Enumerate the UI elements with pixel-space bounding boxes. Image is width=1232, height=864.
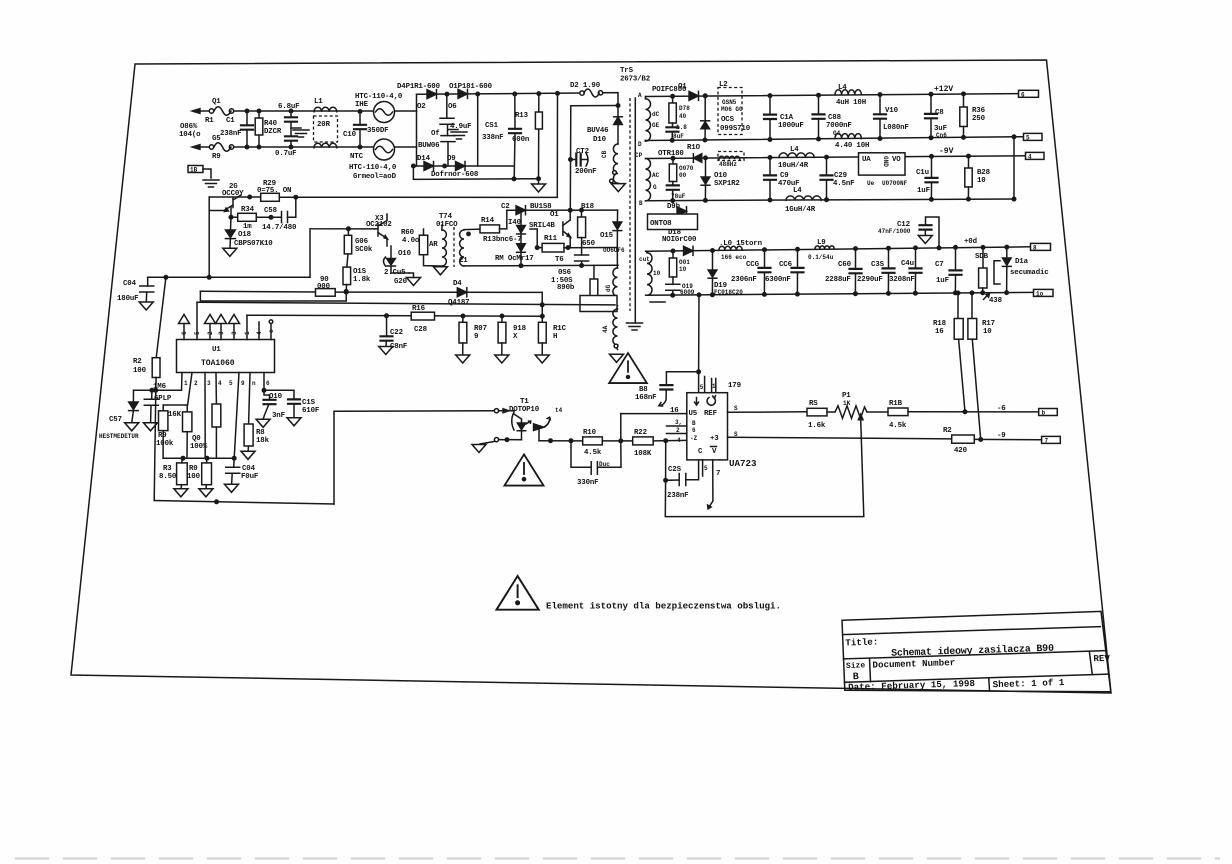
svg-text:CB: CB: [601, 150, 608, 158]
svg-text:D4: D4: [453, 280, 462, 288]
opto phototransistor: [534, 424, 545, 431]
svg-text:R11: R11: [544, 235, 558, 243]
bridge mid column with cap 4.9uF: [447, 94, 448, 166]
svg-text:C8: C8: [935, 109, 944, 117]
wire REF output: [728, 411, 808, 414]
svg-text:GE: GE: [652, 122, 660, 129]
wire PG base: [230, 208, 232, 218]
svg-text:AC: AC: [652, 172, 660, 179]
resistor AR: [419, 235, 427, 255]
svg-text:R0: R0: [189, 465, 198, 473]
ground T74: [440, 265, 442, 268]
transformer core dashed: [629, 98, 631, 311]
title block row line 1: [843, 627, 1101, 635]
NTC thermistor lower: [374, 139, 395, 160]
svg-text:O15: O15: [600, 232, 614, 240]
node 438: [984, 295, 988, 300]
svg-text:OCS: OCS: [721, 116, 735, 124]
svg-text:R1O: R1O: [687, 144, 701, 152]
svg-text:1o: 1o: [1036, 290, 1044, 297]
warning triangle opto: [504, 454, 543, 485]
resistor column C: [215, 373, 217, 404]
svg-text:REV: REV: [1093, 653, 1110, 665]
capacitor C1S 610F: [264, 390, 294, 399]
svg-text:-6: -6: [997, 405, 1006, 413]
wire U1 pin6 down: [234, 373, 239, 459]
svg-text:104(o: 104(o: [179, 131, 201, 139]
svg-text:6: 6: [1021, 91, 1025, 98]
svg-text:2: 2: [676, 427, 680, 434]
wire bottom loop: [665, 420, 864, 517]
svg-text:238nF: 238nF: [220, 130, 241, 138]
svg-text:21: 21: [459, 257, 468, 265]
svg-text:-9V: -9V: [939, 147, 954, 156]
svg-text:168nF: 168nF: [635, 394, 656, 402]
svg-text:1GuH/4R: 1GuH/4R: [785, 206, 816, 214]
svg-text:GSN5: GSN5: [722, 99, 737, 106]
svg-text:L080nF: L080nF: [883, 124, 909, 132]
svg-text:3nF: 3nF: [272, 412, 285, 420]
svg-text:D10: D10: [593, 136, 607, 144]
diode D4 line: [200, 290, 315, 293]
U1 top pin arrows: [179, 315, 190, 324]
snubber top rail: [571, 105, 618, 107]
svg-text:n: n: [252, 380, 256, 387]
svg-text:8uF: 8uF: [673, 133, 684, 140]
svg-text:O1: O1: [550, 211, 559, 219]
ground stub near 6.8uF: [291, 127, 301, 129]
svg-text:4: 4: [1028, 153, 1032, 160]
resistor 16K column A: [163, 373, 192, 412]
svg-text:C04: C04: [242, 465, 256, 473]
svg-text:7: 7: [716, 470, 720, 478]
svg-text:4.5nF: 4.5nF: [833, 180, 854, 188]
svg-text:L1: L1: [314, 98, 323, 106]
svg-text:10: 10: [653, 270, 661, 277]
svg-text:CC6: CC6: [779, 261, 793, 269]
svg-text:4.5k: 4.5k: [889, 422, 907, 430]
resistor B28 10: [968, 156, 970, 168]
svg-text:HESTMEDETUR: HESTMEDETUR: [99, 433, 139, 440]
svg-text:Of: Of: [431, 130, 440, 138]
svg-text:3: 3: [207, 380, 211, 387]
svg-text:O10: O10: [398, 250, 412, 258]
svg-text:5: 5: [704, 465, 708, 472]
capacitor C22: [386, 316, 388, 337]
svg-text:U0700NF: U0700NF: [882, 180, 908, 187]
svg-text:1uF: 1uF: [936, 277, 949, 285]
capacitor C7 1uF: [955, 247, 957, 270]
svg-text:R36: R36: [972, 107, 986, 115]
capacitor snubber: [581, 238, 583, 255]
transformer primary lower winding: [616, 248, 618, 269]
IC U1 TDA1060: [177, 340, 275, 373]
svg-text:REF: REF: [704, 410, 717, 418]
wire top corner to switch column: [603, 93, 618, 117]
svg-text:D14: D14: [417, 155, 431, 163]
capacitor C8: [930, 94, 932, 114]
wire X3 base rail: [310, 229, 375, 278]
output connector 7: [1042, 436, 1061, 443]
svg-text:2: 2: [207, 331, 214, 335]
flyback diode BUV46: [614, 117, 623, 125]
svg-text:3,: 3,: [675, 419, 682, 426]
svg-text:A: A: [638, 92, 642, 99]
svg-text:CBPS07K10: CBPS07K10: [234, 240, 273, 248]
wire feedback loop to opto: [334, 411, 496, 504]
svg-text:2290uF: 2290uF: [857, 276, 883, 284]
svg-text:t4: t4: [555, 407, 563, 414]
svg-text:5: 5: [1026, 134, 1030, 141]
svg-text:dC: dC: [652, 111, 660, 118]
svg-text:1B: 1B: [190, 167, 198, 174]
svg-text:3: 3: [218, 331, 225, 335]
svg-text:R10: R10: [583, 429, 597, 437]
capacitor C2S 238nF: [665, 441, 667, 481]
svg-text:01FCO: 01FCO: [436, 221, 458, 229]
svg-text:dG: dG: [605, 284, 612, 292]
svg-text:4A: 4A: [602, 325, 609, 333]
svg-text:C10: C10: [343, 131, 357, 139]
resistor G06 500k: [347, 229, 349, 236]
svg-text:C57: C57: [109, 416, 122, 424]
svg-text:4: 4: [218, 380, 222, 387]
svg-text:40: 40: [679, 113, 687, 120]
svg-text:488Hz: 488Hz: [719, 161, 737, 168]
bridge rectifier left rail: [416, 94, 418, 166]
svg-text:T1: T1: [520, 398, 529, 406]
svg-text:R2: R2: [943, 427, 952, 435]
svg-text:10: 10: [679, 266, 687, 273]
capacitor C60 2288uF: [855, 249, 857, 269]
svg-text:C9: C9: [780, 172, 789, 180]
resistor O070 snubber S2: [671, 157, 675, 161]
svg-text:R07: R07: [474, 325, 487, 333]
svg-text:6: 6: [692, 427, 696, 434]
scan edge artifact: [15, 857, 1220, 859]
resistor R40: [258, 111, 260, 147]
svg-text:cut: cut: [639, 256, 650, 263]
svg-text:V: V: [712, 448, 717, 456]
rail mid-left: [148, 276, 310, 278]
wire U1 clock line: [197, 302, 615, 305]
output connector 5: [1024, 133, 1043, 140]
ground 1B: [203, 180, 219, 187]
secondary winding S1: [646, 99, 651, 141]
regulator box: [859, 153, 906, 175]
title block date/sheet divider: [988, 678, 991, 691]
svg-text:R14: R14: [481, 217, 495, 225]
svg-text:R1C: R1C: [553, 325, 567, 333]
svg-text:C1: C1: [226, 117, 235, 125]
output connector 8: [1031, 243, 1051, 250]
mains input terminal lower arrow: [192, 145, 200, 150]
junction row: [163, 457, 234, 459]
svg-text:C28: C28: [414, 326, 428, 334]
secondary winding S2: [646, 159, 651, 201]
svg-text:BU1S8: BU1S8: [530, 203, 552, 211]
svg-text:6: 6: [181, 331, 188, 335]
svg-text:6: 6: [266, 380, 270, 387]
title block REV cell divider: [1089, 651, 1092, 674]
resistor R1C: [541, 316, 543, 322]
svg-text:-9: -9: [997, 432, 1006, 440]
ground mid bridge: [448, 129, 458, 131]
svg-text:ONTO8: ONTO8: [650, 220, 672, 228]
svg-text:Size: Size: [846, 661, 866, 671]
svg-text:4.0o: 4.0o: [402, 237, 420, 245]
wire U1 pin3 down: [204, 373, 206, 459]
svg-text:100: 100: [187, 473, 201, 481]
svg-text:180uF: 180uF: [117, 295, 138, 303]
title block size cell divider: [870, 658, 871, 681]
svg-text:8: 8: [1033, 244, 1037, 251]
title block row line 3: [845, 674, 1108, 682]
warning triangle transformer: [609, 353, 647, 383]
svg-text:4.40 10H: 4.40 10H: [835, 142, 869, 150]
svg-text:O070: O070: [679, 165, 694, 172]
+12V bottom rail: [646, 137, 1024, 141]
svg-text:HTC-110-4,0: HTC-110-4,0: [349, 164, 397, 172]
bridge top rail: [417, 93, 582, 94]
svg-text:o: o: [268, 329, 275, 333]
svg-text:8.50: 8.50: [159, 473, 177, 481]
diode D14: [424, 162, 434, 171]
capacitor C9 470uF: [769, 158, 771, 176]
svg-text:C60: C60: [838, 261, 852, 269]
svg-text:4uH 10H: 4uH 10H: [836, 99, 866, 107]
resistor R17: [970, 291, 974, 295]
ground transformer return: [627, 323, 643, 330]
svg-text:0.1/54u: 0.1/54u: [808, 254, 834, 261]
svg-text:R3: R3: [163, 465, 172, 473]
svg-text:V10: V10: [885, 107, 899, 115]
svg-text:47nF/1000: 47nF/1000: [878, 228, 911, 235]
svg-text:C58: C58: [264, 207, 278, 215]
resistor R8 18k: [249, 373, 250, 424]
diode D9: [456, 162, 466, 171]
diode O15: [616, 210, 618, 222]
svg-text:200nF: 200nF: [575, 168, 596, 176]
svg-text:CCG: CCG: [746, 261, 760, 269]
svg-text:890b: 890b: [557, 284, 575, 292]
svg-text:secumadic: secumadic: [1010, 269, 1049, 277]
capacitor snubber S1: [671, 123, 673, 127]
svg-text:2288uF: 2288uF: [825, 276, 851, 284]
svg-text:NTC: NTC: [350, 153, 364, 161]
svg-text:R60: R60: [401, 229, 415, 237]
IC UA723: [687, 393, 728, 460]
capacitor V10: [879, 95, 881, 115]
svg-text:20R: 20R: [317, 121, 331, 129]
wire U1 pin to clock rail: [196, 302, 198, 339]
svg-text:R18: R18: [933, 320, 947, 328]
control rail to primary: [296, 93, 558, 197]
capacitor snubber S2: [672, 182, 674, 186]
svg-text:S: S: [734, 405, 738, 412]
svg-text:D: D: [638, 141, 642, 148]
svg-text:+0d: +0d: [964, 238, 977, 246]
svg-text:G06: G06: [355, 238, 369, 246]
wire U1 pin1: [134, 373, 183, 391]
resistor R18: [956, 291, 960, 295]
svg-text:IHE: IHE: [355, 101, 369, 109]
svg-text:OO6UF6: OO6UF6: [603, 247, 625, 254]
svg-text:S: S: [734, 431, 738, 438]
bridge right rail: [477, 94, 479, 166]
rail lower-left return: [200, 291, 346, 301]
svg-text:R1: R1: [205, 117, 214, 125]
capacitor snubber S3: [672, 277, 674, 284]
-9V top rail: [646, 156, 1026, 159]
resistor SDB: [981, 246, 985, 250]
svg-text:C88: C88: [828, 114, 842, 122]
svg-text:7: 7: [1045, 437, 1049, 444]
svg-text:10uH/4R: 10uH/4R: [778, 162, 809, 170]
transformer core solid return: [634, 98, 636, 323]
wire upper input rail: [234, 110, 417, 112]
resistor R36 250: [963, 94, 965, 107]
svg-text:Sheet: 1 of 1: Sheet: 1 of 1: [992, 677, 1064, 690]
diode D19: [711, 249, 715, 253]
svg-text:5: 5: [700, 384, 704, 391]
svg-text:Title:: Title:: [845, 636, 878, 648]
inductor L4 bottom: [835, 134, 861, 139]
ground under R13: [538, 179, 540, 184]
svg-text:179: 179: [728, 382, 741, 390]
svg-text:4: 4: [256, 331, 263, 335]
svg-text:O2: O2: [417, 103, 426, 111]
svg-text:O10: O10: [714, 172, 728, 180]
diode D18 zener: [230, 217, 233, 230]
capacitor C10: [359, 112, 361, 148]
wire feedback column: [697, 293, 701, 297]
transformer aux winding: [613, 309, 618, 350]
resistor Q15 1.8k: [347, 254, 348, 267]
wire output return: [1013, 137, 1015, 199]
svg-text:Q1: Q1: [212, 98, 221, 106]
svg-text:650: 650: [582, 240, 596, 248]
wire T74 to R14: [464, 228, 480, 231]
resistor R0: [202, 463, 212, 485]
svg-text:F0uF: F0uF: [241, 473, 258, 481]
svg-text:R13: R13: [515, 112, 529, 120]
svg-text:9: 9: [241, 380, 245, 387]
ground opto input: [480, 441, 495, 444]
svg-text:T6: T6: [555, 256, 564, 264]
wire -6 output: [908, 411, 1039, 413]
IC UA723 top pin tabs: [699, 372, 716, 393]
wire +3 output: [728, 437, 952, 439]
svg-text:2306nF: 2306nF: [731, 276, 757, 284]
svg-text:C1u: C1u: [916, 169, 929, 177]
title block texts: [845, 629, 1111, 694]
svg-text:O86%: O86%: [180, 123, 198, 131]
svg-text:C2S: C2S: [668, 466, 682, 474]
svg-text:1.8k: 1.8k: [353, 276, 371, 284]
capacitor C4q: [915, 248, 917, 269]
snubber bottom rail: [464, 264, 618, 267]
wire opto output row: [539, 440, 583, 442]
svg-text:C7: C7: [935, 261, 944, 269]
svg-text:G20: G20: [394, 278, 408, 286]
svg-text:350DF: 350DF: [367, 127, 388, 135]
svg-text:T74: T74: [439, 213, 453, 221]
svg-text:G: G: [653, 184, 657, 191]
svg-text:600n: 600n: [512, 136, 529, 144]
diode D6 bridge: [458, 89, 468, 98]
svg-text:918: 918: [513, 325, 527, 333]
bottom rail left: [154, 501, 334, 505]
svg-text:1.8: 1.8: [676, 124, 687, 131]
svg-text:7000nF: 7000nF: [826, 122, 852, 130]
svg-text:DZCR: DZCR: [264, 128, 282, 136]
transformer primary winding: [617, 125, 619, 145]
svg-text:R13bnc6-7: R13bnc6-7: [483, 236, 522, 244]
svg-text:Element istotny dla bezpieczen: Element istotny dla bezpieczenstwa obslu…: [546, 601, 781, 612]
svg-text:6.8uF: 6.8uF: [278, 103, 299, 111]
resistor R07: [462, 316, 464, 322]
capacitor CC6: [797, 249, 799, 268]
fuse Q1: [209, 109, 213, 113]
svg-text:100%: 100%: [190, 443, 208, 451]
svg-text:+12V: +12V: [934, 85, 953, 94]
svg-text:SDB: SDB: [975, 253, 989, 261]
capacitor 330nF bypass: [571, 441, 621, 468]
svg-text:R17: R17: [982, 320, 995, 328]
svg-text:C22: C22: [390, 329, 403, 337]
wire R10 junction to pin16: [620, 414, 622, 441]
bridge bottom rail: [413, 165, 514, 167]
capacitor Q10 3nF: [264, 373, 270, 400]
svg-text:Q0: Q0: [192, 435, 201, 443]
svg-text:099S710: 099S710: [720, 125, 751, 133]
svg-text:GND: GND: [882, 156, 889, 167]
capacitor C04b: [233, 458, 236, 467]
svg-text:SXP1R2: SXP1R2: [714, 180, 740, 188]
svg-text:M06 G0: M06 G0: [721, 106, 743, 113]
diode O10 SXP1R2: [704, 156, 708, 160]
capacitor C39: [888, 248, 890, 268]
connector 1B: [188, 166, 203, 173]
diode BR2: [520, 234, 522, 244]
output connector b: [1039, 409, 1058, 416]
svg-text:438: 438: [989, 297, 1003, 305]
damper dashed box S2: [718, 152, 744, 161]
svg-text:14.7/480: 14.7/480: [262, 224, 297, 232]
svg-text:B28: B28: [977, 169, 991, 177]
output connector 10: [1034, 289, 1054, 296]
svg-text:SC0k: SC0k: [355, 246, 373, 254]
svg-text:C3S: C3S: [871, 261, 885, 269]
svg-text:O18: O18: [238, 231, 252, 239]
third section bottom rail: [646, 292, 1034, 295]
resistor 870: [593, 265, 595, 279]
svg-text:RS: RS: [809, 400, 818, 408]
wire PG emitter column: [208, 197, 210, 277]
svg-text:Schemat ideowy zasilacza B90: Schemat ideowy zasilacza B90: [891, 643, 1054, 660]
resistor O01 snubber S3: [671, 249, 675, 253]
svg-text:330nF: 330nF: [577, 479, 598, 487]
fuse G5: [209, 145, 213, 149]
capacitor CT2 200nF: [569, 158, 573, 162]
capacitor C1A 1000uF: [769, 96, 771, 115]
svg-text:C1A: C1A: [780, 114, 794, 122]
svg-text:2.Cu5: 2.Cu5: [384, 269, 406, 277]
diode D18: [684, 246, 694, 255]
svg-text:10: 10: [983, 328, 992, 336]
-9V bottom rail: [646, 199, 1015, 201]
